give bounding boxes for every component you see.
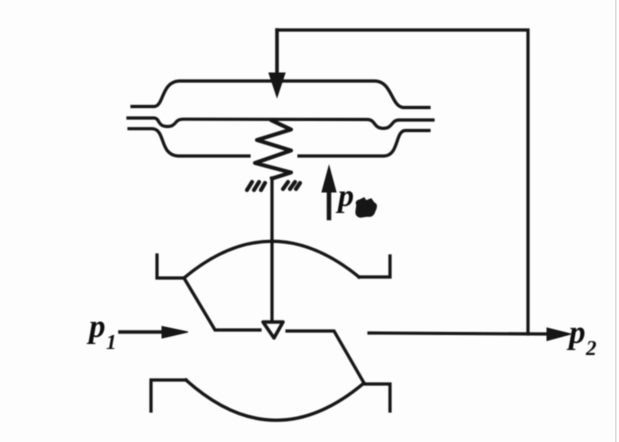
svg-text:p: p	[86, 309, 106, 345]
valve body lower seat and diagonal	[287, 331, 364, 383]
actuator bottom shell (gap where spring crosses)	[129, 129, 249, 156]
hatched spring seat left	[247, 182, 265, 190]
wire: feedback line from p2 up and over to actuator top	[277, 30, 528, 334]
inlet arrow p1	[120, 330, 164, 334]
svg-text:p: p	[566, 315, 586, 351]
hatched spring seat right	[283, 182, 300, 189]
actuator top shell	[132, 81, 429, 108]
valve body lower-right bracket	[364, 384, 390, 411]
valve body lower dome arc	[186, 380, 364, 420]
svg-text:1: 1	[106, 330, 117, 354]
valve stem	[270, 178, 273, 320]
subscript blob glyph	[356, 198, 376, 217]
valve body upper-left bracket	[157, 255, 184, 278]
valve body upper-left diagonal to seat	[184, 278, 260, 330]
svg-text:2: 2	[585, 336, 597, 360]
diaphragm membrane	[128, 118, 433, 128]
spring between diaphragm and seat	[255, 121, 291, 179]
arrowhead: feedback into diaphragm chamber	[269, 73, 285, 97]
outlet line to p2	[369, 333, 548, 334]
valve plug (open triangle)	[263, 322, 283, 338]
up arrow for feedback pressure	[327, 190, 332, 218]
svg-text:p: p	[335, 177, 354, 213]
valve body upper dome arc	[184, 241, 359, 278]
valve body lower-left bracket	[151, 380, 186, 411]
valve body upper-right bracket	[359, 256, 390, 277]
scan edge artifact line	[615, 0, 617, 442]
